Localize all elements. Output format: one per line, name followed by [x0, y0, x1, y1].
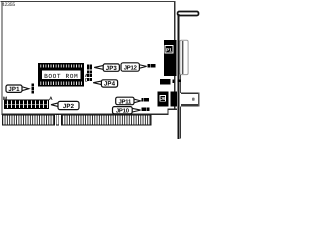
jumper JP11 pins: [141, 98, 149, 101]
callout JP12: [121, 63, 147, 72]
svg-text:JP2: JP2: [63, 103, 75, 110]
svg-text:JP11: JP11: [118, 98, 132, 105]
connector P1 shell through bracket: [180, 40, 188, 74]
callout JP4: [93, 80, 117, 88]
svg-text:P1: P1: [166, 48, 172, 54]
chip J6: [158, 92, 169, 107]
bracket nub: [177, 79, 181, 82]
component bar below P1: [160, 79, 170, 84]
bracket inner line mid: [180, 75, 181, 93]
chip P1: [164, 40, 177, 76]
callout JP3: [94, 64, 119, 72]
header block JP2: [4, 100, 48, 109]
svg-text:JP12: JP12: [124, 64, 138, 71]
bracket main line: [178, 14, 180, 139]
connector J6 barrel: [181, 93, 199, 107]
card outline: bottom-right step vertical: [167, 109, 168, 115]
edge connector group 2: [61, 115, 151, 125]
svg-text:JP10: JP10: [116, 108, 130, 115]
edge connector group 1: [2, 115, 54, 125]
bracket inner line lower: [180, 107, 181, 139]
callout JP10: [113, 107, 141, 115]
svg-text:JP4: JP4: [104, 81, 116, 88]
callout JP2: [51, 101, 79, 109]
boot rom label box: [41, 70, 81, 80]
card outline: right edge: [174, 1, 175, 109]
callout JP1: [6, 85, 29, 93]
connector J6 neck through bracket: [170, 92, 177, 107]
jumper JP12 pins: [148, 64, 156, 67]
jumper JP10 pins: [141, 108, 149, 112]
svg-text:JP1: JP1: [8, 86, 20, 93]
svg-text:BOOT ROM: BOOT ROM: [44, 73, 78, 80]
svg-text:42355: 42355: [2, 2, 16, 8]
edge connector key tab: [56, 114, 59, 125]
pin beside bar: [173, 80, 175, 84]
svg-text:A: A: [49, 96, 53, 102]
svg-text:JP3: JP3: [106, 65, 118, 72]
header block JP4: [87, 70, 92, 81]
card outline: bottom edge: [1, 114, 168, 115]
svg-text:J6: J6: [161, 96, 166, 101]
callout JP11: [116, 97, 141, 105]
jumper JP3 pins: [87, 65, 92, 70]
card outline: bottom-right step horizontal: [167, 109, 177, 110]
boot rom socket U? body: [38, 63, 84, 86]
card outline: top edge: [1, 1, 176, 2]
jumper JP1 pins: [31, 84, 34, 94]
card outline: left edge: [1, 1, 2, 115]
bracket top tab: [178, 12, 199, 16]
